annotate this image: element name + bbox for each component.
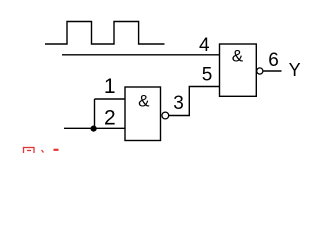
svg-text:&: & — [138, 92, 150, 111]
svg-text:1: 1 — [104, 75, 116, 98]
svg-text:2: 2 — [104, 107, 116, 130]
svg-text:4: 4 — [199, 35, 210, 56]
svg-text:5: 5 — [202, 64, 213, 85]
svg-text:3: 3 — [173, 93, 184, 114]
svg-text:6: 6 — [268, 50, 279, 71]
svg-text:&: & — [232, 46, 244, 65]
svg-text:Y: Y — [289, 60, 301, 80]
